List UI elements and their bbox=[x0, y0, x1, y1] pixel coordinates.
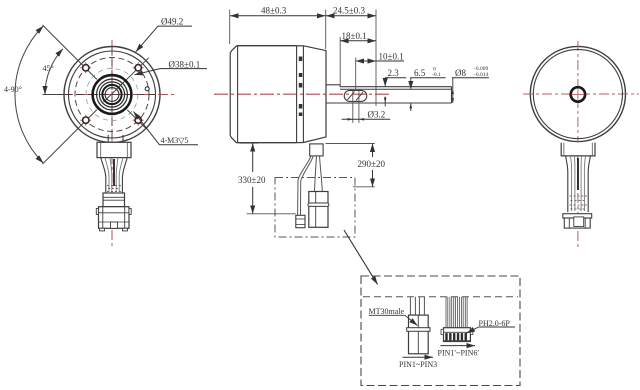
hub ring 2 bbox=[97, 79, 128, 110]
svg-text:330±20: 330±20 bbox=[238, 175, 266, 185]
dimension 10±0.1 bbox=[356, 52, 404, 90]
dimension 4-M3 depth 5 leader bbox=[134, 112, 199, 146]
shaft collar bbox=[326, 85, 340, 87]
svg-text:2.3: 2.3 bbox=[388, 68, 400, 78]
svg-text:Ø8: Ø8 bbox=[455, 68, 466, 78]
screw hole bottom-left bbox=[80, 115, 91, 126]
svg-text:4-M3▽5: 4-M3▽5 bbox=[161, 136, 189, 145]
svg-text:Ø3.2: Ø3.2 bbox=[368, 110, 386, 120]
front view neck bbox=[108, 135, 123, 142]
side view MT30 connector bbox=[296, 215, 305, 227]
radial line 135deg bbox=[43, 25, 97, 79]
dimension 48±0.3 bbox=[230, 6, 326, 50]
leader to detail box bbox=[344, 230, 378, 284]
boss dashed circle bbox=[86, 69, 138, 121]
dimension 2.3 bbox=[384, 68, 406, 107]
side view body left cap bbox=[230, 46, 237, 143]
svg-text:48±0.3: 48±0.3 bbox=[261, 6, 287, 16]
side view horizontal centerline bbox=[214, 93, 390, 95]
dimension 18±0.1 bbox=[340, 31, 376, 86]
svg-text:290±20: 290±20 bbox=[358, 159, 386, 169]
dimension Ø3.2 bbox=[342, 110, 391, 121]
side view main connector bbox=[308, 192, 329, 228]
detail box break line bbox=[363, 296, 518, 298]
angle dimension 45 arc bbox=[43, 49, 67, 95]
dimension Ø49.2 leader bbox=[136, 17, 192, 52]
label PIN1'~PIN6' with arrow bbox=[438, 346, 480, 358]
hub ring 4 bbox=[102, 85, 121, 104]
hub ring 3 bbox=[99, 82, 124, 107]
screw hole top-left bbox=[80, 62, 91, 73]
rear shaft end circle bbox=[571, 87, 585, 101]
label PH2.0-6P bbox=[467, 319, 516, 333]
shaft circle bbox=[105, 88, 119, 102]
front view cable gland bbox=[97, 142, 131, 157]
rear view cable braid bbox=[566, 156, 591, 212]
radial line 45deg through hub bbox=[104, 58, 149, 102]
label MT30male bbox=[369, 307, 418, 326]
front view cable braid bbox=[101, 158, 127, 193]
svg-text:Ø49.2: Ø49.2 bbox=[161, 17, 183, 27]
svg-text:45°: 45° bbox=[43, 64, 54, 73]
side view rear trapezoid bbox=[303, 46, 326, 143]
locating pin hole bbox=[145, 87, 149, 91]
label PIN1~PIN3 with arrow bbox=[399, 357, 437, 369]
dimension 290±20 bbox=[326, 144, 386, 187]
angle dimension 4-90 arc bbox=[4, 26, 43, 163]
PH2.0 ribbon wires bbox=[446, 297, 467, 328]
svg-text:-0.014: -0.014 bbox=[474, 72, 488, 78]
side view body main bbox=[237, 46, 297, 143]
side view flange bbox=[297, 46, 304, 143]
MT30 connector wires bbox=[410, 297, 424, 315]
rear view vertical centerline bbox=[577, 41, 579, 249]
rear view cable gland bbox=[561, 143, 595, 156]
svg-text:24.5±0.3: 24.5±0.3 bbox=[333, 6, 365, 16]
front view horizontal centerline bbox=[44, 46, 177, 142]
svg-text:18±0.1: 18±0.1 bbox=[342, 31, 367, 41]
svg-text:6.5: 6.5 bbox=[414, 68, 426, 78]
connector detail dashed box bbox=[361, 276, 520, 386]
front view inner face circle bbox=[69, 51, 156, 138]
dimension Ø38±0.1 leader bbox=[135, 59, 208, 75]
screw hole top-right bbox=[133, 62, 144, 73]
shaft Ø8 bbox=[326, 87, 452, 103]
radial line 225deg bbox=[43, 110, 97, 164]
svg-text:-0.1: -0.1 bbox=[432, 72, 441, 78]
PH2.0-6P connector housing bbox=[441, 328, 473, 342]
side view wires to main connector bbox=[315, 156, 323, 192]
svg-text:Ø38±0.1: Ø38±0.1 bbox=[169, 59, 201, 69]
dimension 330±20 bbox=[238, 143, 296, 214]
radial line 315deg bbox=[127, 110, 146, 129]
front view vertical centerline bbox=[111, 40, 113, 246]
rear view horizontal centerline bbox=[523, 93, 639, 95]
front view connector upper bbox=[103, 193, 125, 207]
front view outer circle Ø49.2 bbox=[64, 47, 160, 143]
MT30 connector body bbox=[407, 315, 430, 354]
svg-text:4-90°: 4-90° bbox=[4, 85, 22, 94]
front view connector lower bbox=[96, 207, 131, 231]
svg-text:MT30male: MT30male bbox=[369, 307, 405, 316]
dimension Ø8 with tolerance bbox=[452, 66, 489, 103]
dimension 6.5 with tolerance bbox=[410, 67, 446, 112]
side view cable gland bbox=[310, 144, 323, 156]
detail source dashed box bbox=[275, 178, 355, 238]
svg-text:PIN1′~PIN6′: PIN1′~PIN6′ bbox=[438, 349, 480, 358]
shaft slot Ø3.2 hole bbox=[344, 90, 367, 123]
rear view connector bbox=[563, 214, 592, 228]
rear view outer circle bbox=[530, 46, 625, 141]
svg-text:PIN1~PIN3: PIN1~PIN3 bbox=[399, 360, 437, 369]
dimension 24.5±0.3 bbox=[326, 6, 376, 107]
bolt circle Ø38 dashed bbox=[75, 58, 149, 132]
hub ring outer bbox=[93, 75, 132, 114]
screw hole bottom-right bbox=[133, 115, 144, 126]
rear view inner circle bbox=[533, 49, 622, 138]
side view wires to MT30 bbox=[298, 156, 314, 215]
svg-text:10±0.1: 10±0.1 bbox=[379, 52, 404, 62]
